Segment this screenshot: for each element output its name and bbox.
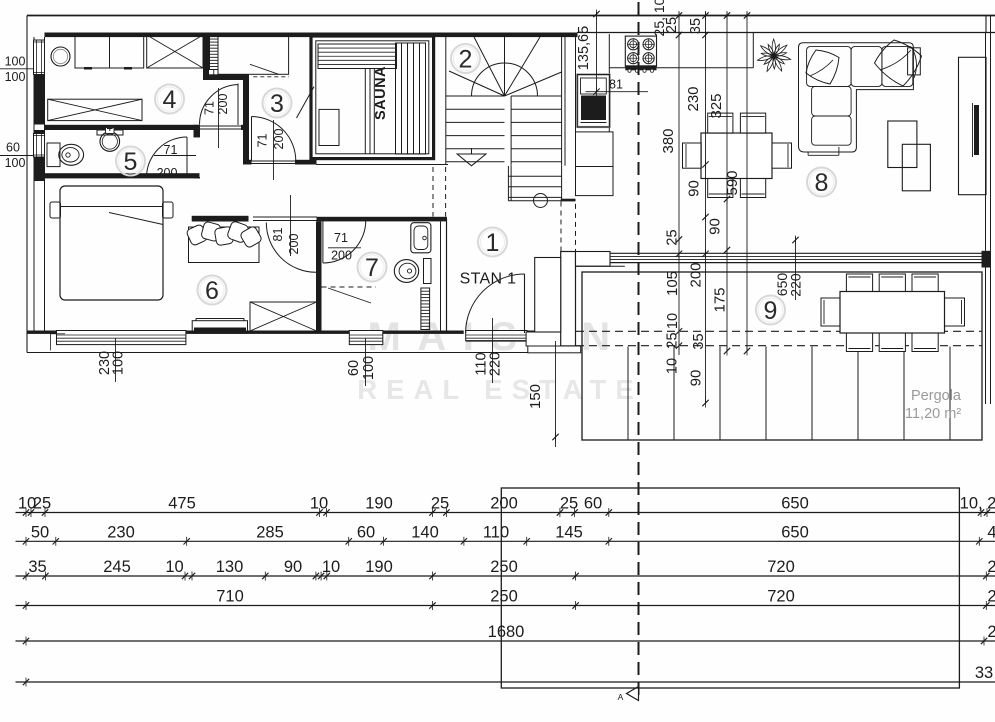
svg-text:REAL ESTATE: REAL ESTATE <box>357 374 642 405</box>
svg-text:2: 2 <box>987 558 995 576</box>
svg-text:2: 2 <box>987 588 995 606</box>
svg-text:250: 250 <box>490 588 518 606</box>
svg-text:71: 71 <box>164 143 178 157</box>
svg-text:4: 4 <box>163 86 177 114</box>
svg-text:220: 220 <box>488 352 504 376</box>
svg-text:90: 90 <box>686 180 703 197</box>
svg-text:71: 71 <box>334 231 348 245</box>
svg-text:3: 3 <box>270 90 284 118</box>
svg-text:650: 650 <box>781 523 809 541</box>
svg-text:33: 33 <box>975 664 993 682</box>
svg-text:145: 145 <box>555 523 583 541</box>
svg-text:100: 100 <box>111 351 127 375</box>
svg-text:230: 230 <box>685 86 702 111</box>
svg-text:90: 90 <box>688 370 705 387</box>
svg-text:81: 81 <box>271 228 285 242</box>
svg-text:325: 325 <box>708 93 725 118</box>
svg-text:100: 100 <box>361 356 377 380</box>
svg-text:90: 90 <box>707 218 724 235</box>
svg-text:81: 81 <box>609 78 623 92</box>
svg-text:590: 590 <box>724 170 741 195</box>
svg-text:720: 720 <box>767 588 795 606</box>
svg-text:25: 25 <box>431 495 449 513</box>
svg-text:Pergola: Pergola <box>911 388 962 404</box>
svg-text:35: 35 <box>691 333 707 349</box>
svg-text:2: 2 <box>987 623 995 641</box>
svg-text:4: 4 <box>987 523 995 541</box>
svg-text:A: A <box>618 692 624 702</box>
svg-text:60: 60 <box>346 360 362 376</box>
svg-text:475: 475 <box>168 495 196 513</box>
svg-text:11,20 m²: 11,20 m² <box>905 406 961 422</box>
svg-text:110: 110 <box>483 523 509 541</box>
svg-text:9: 9 <box>764 297 778 325</box>
svg-text:5: 5 <box>124 148 138 176</box>
svg-text:25: 25 <box>664 17 680 33</box>
svg-text:100: 100 <box>5 156 26 170</box>
svg-text:100: 100 <box>5 55 26 69</box>
svg-text:650: 650 <box>781 495 809 513</box>
svg-text:50: 50 <box>31 523 49 541</box>
svg-text:100: 100 <box>5 70 26 84</box>
svg-text:71: 71 <box>203 101 217 115</box>
svg-text:60: 60 <box>584 495 602 513</box>
svg-text:190: 190 <box>365 558 393 576</box>
svg-text:720: 720 <box>767 558 795 576</box>
svg-text:250: 250 <box>490 558 518 576</box>
svg-text:71: 71 <box>256 134 270 148</box>
svg-text:130: 130 <box>216 558 244 576</box>
svg-text:710: 710 <box>216 588 244 606</box>
svg-text:105: 105 <box>664 271 681 296</box>
svg-text:10: 10 <box>165 558 183 576</box>
svg-text:25: 25 <box>33 495 51 513</box>
svg-text:6: 6 <box>205 277 219 305</box>
svg-text:25: 25 <box>665 229 681 245</box>
svg-text:25: 25 <box>665 332 681 348</box>
svg-text:200: 200 <box>287 234 301 255</box>
svg-text:200: 200 <box>272 129 286 150</box>
svg-text:35: 35 <box>28 558 46 576</box>
svg-text:10, 2: 10, 2 <box>960 495 995 513</box>
svg-text:380: 380 <box>660 128 677 153</box>
svg-text:10: 10 <box>665 313 681 329</box>
svg-text:35: 35 <box>688 18 704 34</box>
svg-text:1680: 1680 <box>488 623 525 641</box>
svg-text:230: 230 <box>107 523 135 541</box>
svg-text:175: 175 <box>712 287 729 312</box>
svg-text:STAN 1: STAN 1 <box>460 271 517 288</box>
svg-text:2: 2 <box>459 45 473 73</box>
svg-text:190: 190 <box>365 495 393 513</box>
svg-text:10: 10 <box>322 558 340 576</box>
svg-text:285: 285 <box>256 523 284 541</box>
svg-text:150: 150 <box>527 384 544 409</box>
svg-text:SAUNA: SAUNA <box>373 66 389 120</box>
svg-text:7: 7 <box>365 254 379 282</box>
svg-text:200: 200 <box>490 495 518 513</box>
svg-text:200: 200 <box>157 166 178 180</box>
svg-text:245: 245 <box>103 558 131 576</box>
svg-text:60: 60 <box>357 523 375 541</box>
svg-text:200: 200 <box>331 249 352 263</box>
svg-text:60: 60 <box>6 141 20 155</box>
svg-text:135,65: 135,65 <box>576 26 592 70</box>
svg-text:140: 140 <box>411 523 439 541</box>
svg-text:90: 90 <box>284 558 302 576</box>
svg-text:200: 200 <box>688 262 705 287</box>
svg-text:8: 8 <box>815 169 829 197</box>
svg-text:10: 10 <box>310 495 328 513</box>
svg-text:1: 1 <box>486 229 500 257</box>
svg-text:10: 10 <box>665 358 681 374</box>
svg-text:25: 25 <box>560 495 578 513</box>
